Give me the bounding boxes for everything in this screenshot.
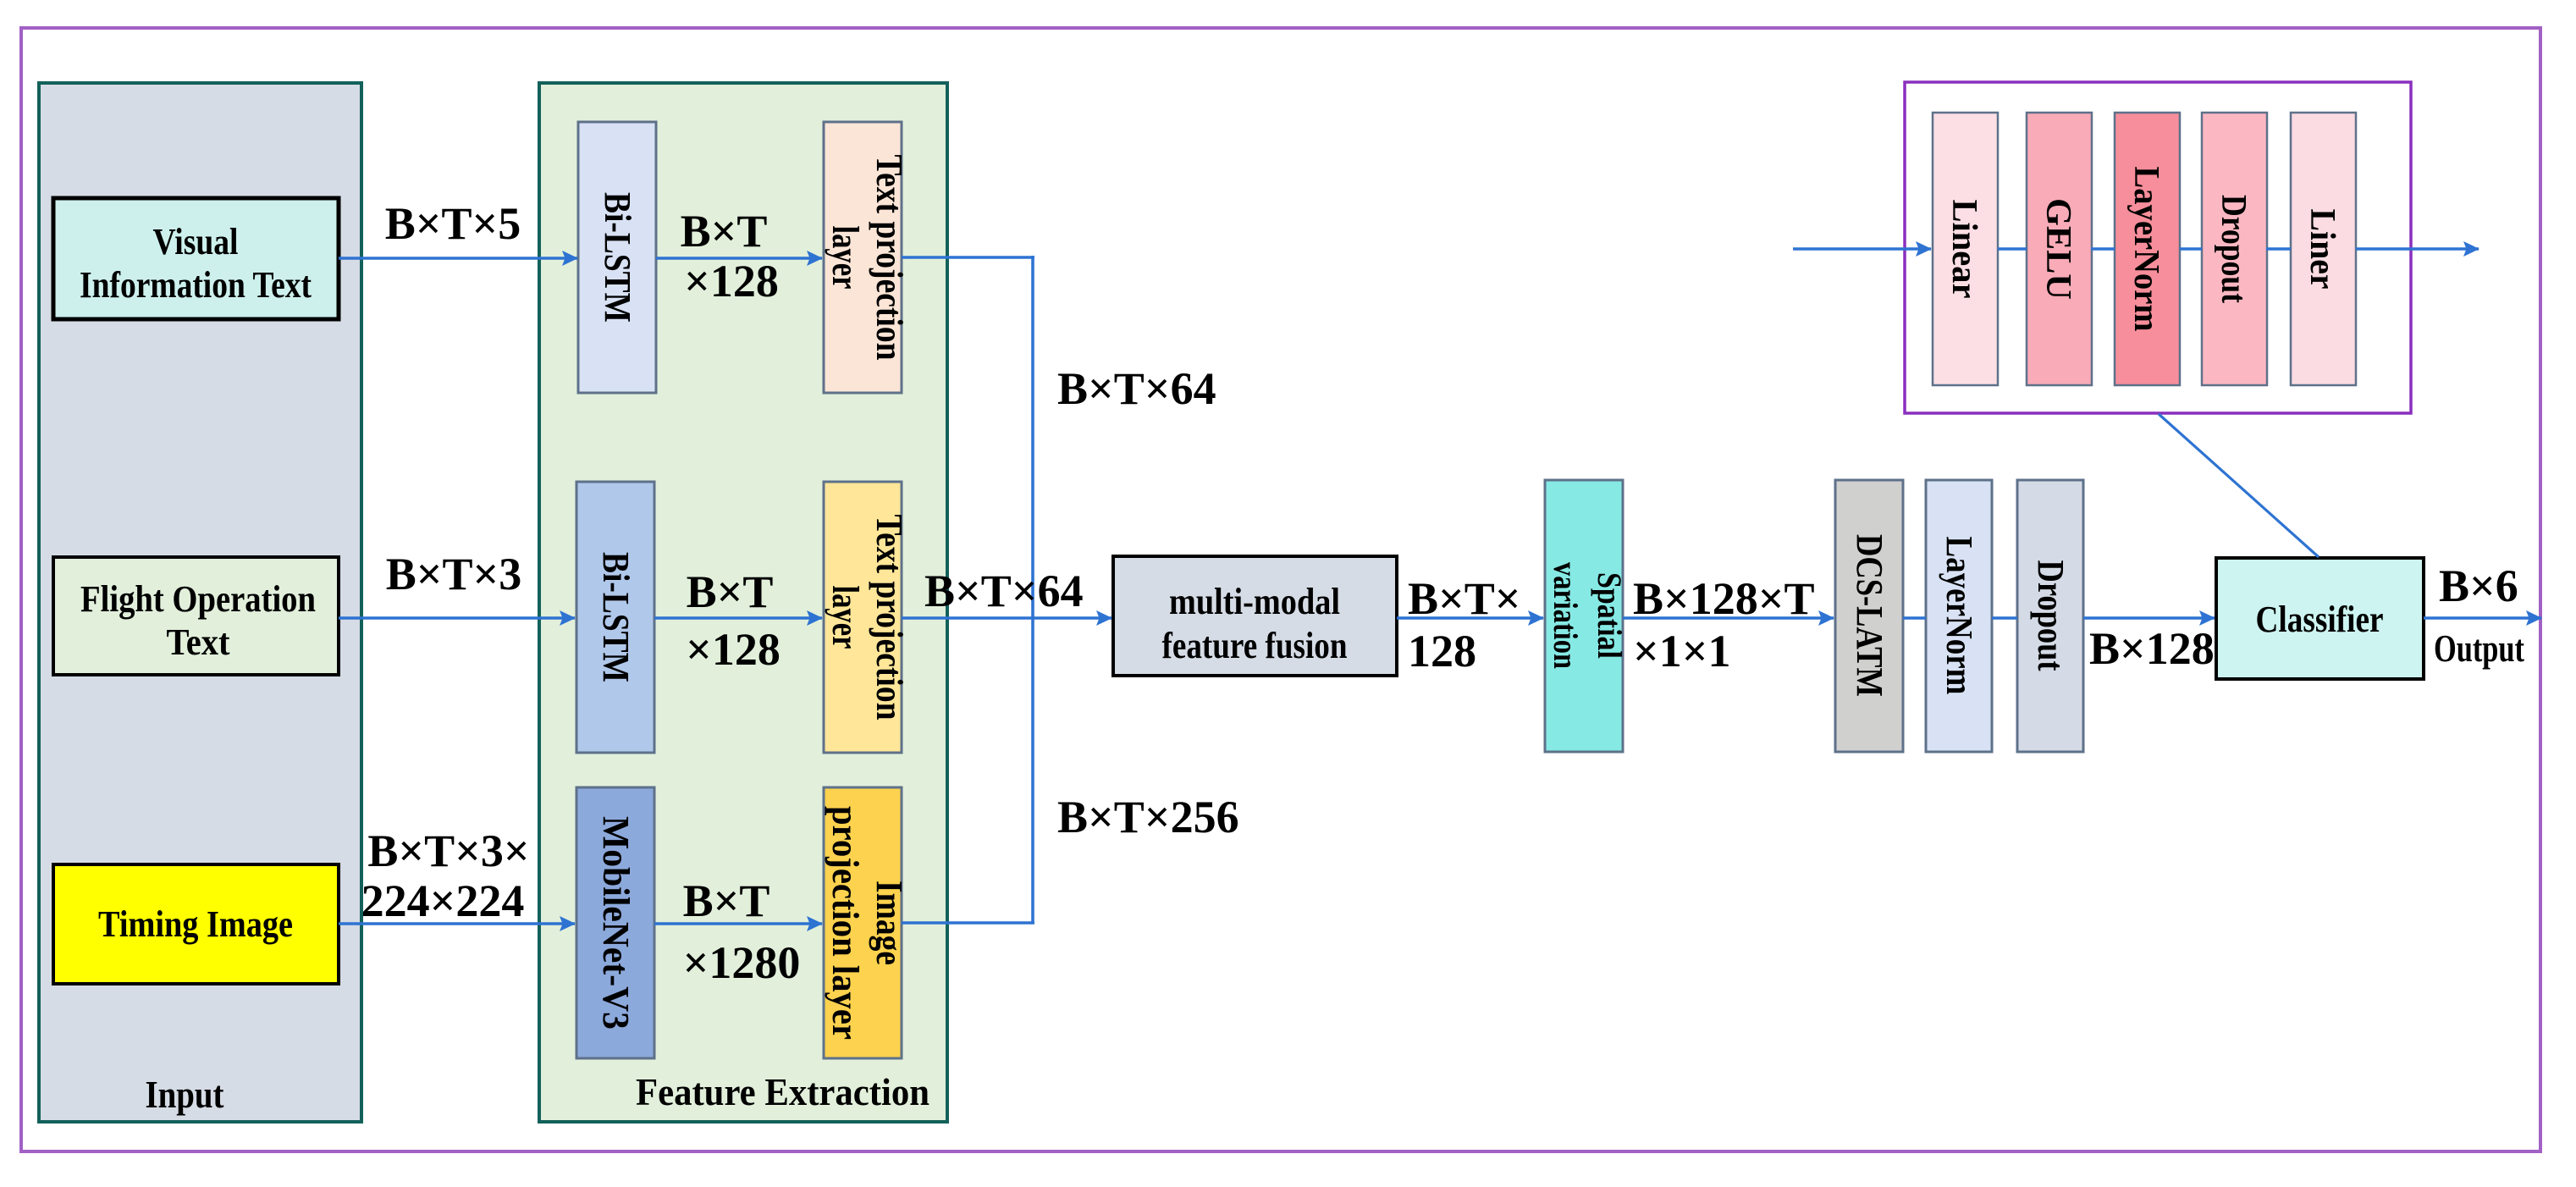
svg-text:Dropout: Dropout xyxy=(2214,195,2253,303)
wire detail input arrow xyxy=(1793,247,1931,251)
detail box GELU xyxy=(2027,113,2092,385)
svg-text:GELU: GELU xyxy=(2038,198,2077,300)
svg-text:DCS-LATM: DCS-LATM xyxy=(1849,534,1890,697)
box Spatial variation xyxy=(1545,480,1623,752)
svg-text:B×T×: B×T× xyxy=(1408,573,1521,624)
svg-text:×128: ×128 xyxy=(686,624,781,675)
svg-text:Bi-LSTM: Bi-LSTM xyxy=(595,552,637,682)
svg-text:Output: Output xyxy=(2434,627,2524,670)
svg-text:B×T: B×T xyxy=(681,206,768,257)
wire Image projection out xyxy=(902,921,1034,925)
wire callout diagonal xyxy=(2159,414,2319,557)
detail label GELU xyxy=(2038,198,2077,300)
label Text projection layer row1 xyxy=(825,155,910,361)
box Dropout main xyxy=(2017,480,2083,752)
label Bi-LSTM row2 xyxy=(595,552,637,682)
box Flight Operation Text xyxy=(53,557,339,675)
wire fusion to Spatial variation xyxy=(1397,616,1543,620)
wire Bi-LSTM to Text projection row2 xyxy=(654,616,822,620)
svg-text:Visual: Visual xyxy=(153,221,239,262)
detail box LayerNorm xyxy=(2115,113,2180,385)
label DCS-LATM xyxy=(1849,534,1890,697)
label Image projection layer xyxy=(825,806,910,1040)
svg-text:Input: Input xyxy=(146,1073,225,1116)
svg-text:B×T: B×T xyxy=(687,566,774,617)
svg-text:Information Text: Information Text xyxy=(80,264,312,306)
svg-text:128: 128 xyxy=(1408,626,1476,676)
svg-text:B×T: B×T xyxy=(683,875,770,926)
label Bi-LSTM row1 xyxy=(597,192,638,323)
svg-text:layer: layer xyxy=(825,586,866,649)
svg-text:Spatial: Spatial xyxy=(1591,572,1629,659)
wire Visual to Bi-LSTM row1 xyxy=(339,257,577,260)
svg-text:LayerNorm: LayerNorm xyxy=(2126,167,2165,332)
svg-text:projection layer: projection layer xyxy=(825,806,866,1040)
box Timing Image xyxy=(53,864,339,984)
box Text projection layer row2 xyxy=(824,482,902,753)
label Dropout main xyxy=(2030,560,2071,671)
wire LayerNorm to Dropout xyxy=(1992,616,2017,620)
wire DCS-LATM to LayerNorm xyxy=(1903,616,1926,620)
svg-text:B×6: B×6 xyxy=(2439,560,2518,611)
label Text projection layer row2 xyxy=(825,515,910,720)
svg-text:Bi-LSTM: Bi-LSTM xyxy=(597,192,638,323)
wire detail GELU-LayerNorm xyxy=(2091,247,2115,251)
wire Bi-LSTM to Text projection row1 xyxy=(656,257,822,260)
svg-text:×1×1: ×1×1 xyxy=(1633,626,1731,676)
wire detail Linear-GELU xyxy=(1998,247,2027,251)
svg-text:Liner: Liner xyxy=(2303,209,2342,290)
detail label Liner xyxy=(2303,209,2342,290)
detail box Liner xyxy=(2291,113,2356,385)
detail label Linear xyxy=(1944,200,1983,299)
svg-text:Linear: Linear xyxy=(1944,200,1983,299)
svg-text:layer: layer xyxy=(825,226,866,290)
box Text projection layer row1 xyxy=(824,122,902,393)
detail box Linear xyxy=(1933,113,1998,385)
wire Text projection row1 out xyxy=(902,256,1034,259)
label Spatial variation xyxy=(1547,562,1629,669)
svg-text:B×128×T: B×128×T xyxy=(1633,573,1815,624)
box DCS-LATM xyxy=(1835,480,1903,752)
wire detail Dropout-Liner xyxy=(2266,247,2291,251)
svg-text:Text: Text xyxy=(167,621,230,663)
svg-text:Dropout: Dropout xyxy=(2030,560,2071,671)
wire Text projection row2 to fusion xyxy=(902,616,1111,620)
Input container xyxy=(39,83,361,1122)
wire detail LayerNorm-Dropout xyxy=(2180,247,2202,251)
wire Spatial variation to DCS-LATM xyxy=(1623,616,1834,620)
svg-text:variation: variation xyxy=(1547,562,1585,669)
wire vertical merge xyxy=(1031,256,1034,923)
svg-text:×1280: ×1280 xyxy=(683,937,801,988)
svg-text:B×T×3: B×T×3 xyxy=(386,549,522,599)
detail purple box xyxy=(1905,82,2411,413)
svg-text:Timing Image: Timing Image xyxy=(98,903,293,945)
box Bi-LSTM row2 xyxy=(576,482,654,753)
label LayerNorm main xyxy=(1939,537,1980,695)
svg-text:Feature Extraction: Feature Extraction xyxy=(636,1070,929,1113)
svg-text:B×T×64: B×T×64 xyxy=(924,566,1084,616)
box Visual Information Text xyxy=(53,198,339,319)
Feature Extraction container xyxy=(539,83,947,1122)
box multi-modal feature fusion xyxy=(1113,556,1397,676)
wire Timing to MobileNet xyxy=(339,922,575,925)
svg-text:Flight Operation: Flight Operation xyxy=(80,578,316,620)
box Image projection layer xyxy=(824,787,902,1058)
box Bi-LSTM row1 xyxy=(578,122,656,393)
wire detail output arrow xyxy=(2356,247,2479,251)
wire Flight to Bi-LSTM row2 xyxy=(339,616,575,620)
wire Dropout to Classifier xyxy=(2083,616,2215,620)
svg-text:LayerNorm: LayerNorm xyxy=(1939,537,1980,695)
svg-text:224×224: 224×224 xyxy=(361,875,525,926)
box Classifier xyxy=(2216,558,2424,679)
svg-text:B×T×64: B×T×64 xyxy=(1057,363,1216,414)
wire Classifier to output xyxy=(2424,616,2541,620)
svg-text:B×128: B×128 xyxy=(2089,623,2215,674)
label MobileNet-V3 xyxy=(595,816,637,1030)
svg-text:×128: ×128 xyxy=(684,256,779,306)
detail label LayerNorm xyxy=(2126,167,2165,332)
detail box Dropout xyxy=(2202,113,2267,385)
box MobileNet-V3 xyxy=(576,787,654,1058)
svg-text:B×T×256: B×T×256 xyxy=(1057,792,1239,842)
svg-text:B×T×5: B×T×5 xyxy=(385,198,521,249)
detail label Dropout xyxy=(2214,195,2253,303)
svg-text:multi-modal: multi-modal xyxy=(1169,581,1340,622)
svg-text:MobileNet-V3: MobileNet-V3 xyxy=(595,816,637,1030)
svg-text:feature fusion: feature fusion xyxy=(1162,625,1348,666)
svg-text:Classifier: Classifier xyxy=(2256,599,2384,640)
wire MobileNet to Image projection xyxy=(654,922,822,925)
svg-text:B×T×3×: B×T×3× xyxy=(367,825,529,876)
box LayerNorm main xyxy=(1926,480,1992,752)
